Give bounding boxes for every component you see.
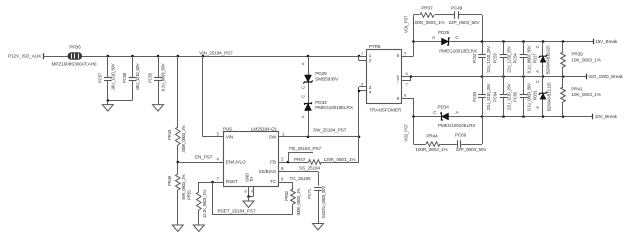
wire bottom snubber [414,117,483,145]
wire TC to PR52 [279,182,294,184]
wire secondary pin 8 [402,98,414,117]
svg-text:120K_0603_1%: 120K_0603_1% [324,157,356,162]
pin1 number outside [361,51,364,56]
transformer PTR8 box [367,44,402,112]
svg-text:PMEG10010ELRX: PMEG10010ELRX [439,49,478,54]
wire SW row [279,136,361,139]
svg-text:22P_0603_50V: 22P_0603_50V [449,20,481,25]
svg-text:PR47: PR47 [294,157,306,162]
svg-text:C: C [300,95,305,98]
svg-text:PC54: PC54 [513,53,518,64]
svg-text:RSET: RSET [226,179,238,184]
svg-text:SW_25184_PS7: SW_25184_PS7 [313,128,347,133]
port 10V_Break [593,114,618,120]
svg-text:330K_0603_1%: 330K_0603_1% [181,125,186,153]
svg-text:10U_1210_50V: 10U_1210_50V [135,63,140,90]
pin 1 number [282,131,285,136]
svg-text:10K_0603_1%: 10K_0603_1% [571,57,600,62]
pin 4 number [216,157,219,162]
svg-text:FB: FB [270,160,276,165]
svg-text:EN_PS7: EN_PS7 [195,155,213,160]
svg-text:ISO_GND_Break: ISO_GND_Break [588,74,623,79]
svg-text:VO1_PS7: VO1_PS7 [403,15,408,33]
capacitor PC58 [122,56,140,101]
ground under PC59 [153,101,164,112]
svg-text:0.1U_0603_50V: 0.1U_0603_50V [161,63,166,91]
zener PD31 [532,77,551,117]
svg-text:100R_0603_1%: 100R_0603_1% [412,20,444,25]
wire SS/BIAS [279,172,319,186]
svg-text:PFB6: PFB6 [69,45,81,50]
svg-text:PD31: PD31 [532,90,537,101]
pin 5 number [281,166,284,171]
svg-text:PC65: PC65 [513,91,518,102]
net label FB_25184_PS7 [289,146,321,151]
wire FB row [279,162,360,164]
svg-text:PTR8: PTR8 [369,44,381,49]
capacitor PC69 [455,133,488,152]
wire GND TH stubs [247,187,253,198]
node junction dots on VIN rail [107,55,361,58]
ground under IC GND [243,197,254,208]
svg-text:PD29: PD29 [315,71,327,76]
wire clamp vertical [308,56,310,137]
svg-text:VO2_PS7: VO2_PS7 [403,124,408,142]
net label TC_25185 [290,176,311,181]
svg-text:PMEG10010ELRX: PMEG10010ELRX [438,123,477,128]
resistor PR52 [284,182,301,216]
wire PR49 to ground [177,190,179,225]
wire top snubber [414,15,483,42]
svg-text:10V_Break: 10V_Break [595,114,618,119]
svg-text:FB_25184_PS7: FB_25184_PS7 [289,146,321,151]
pin 6 number [281,176,284,181]
capacitor PC57 [97,56,115,101]
svg-text:PR43: PR43 [167,129,172,140]
diode PD34 [433,104,476,128]
capacitor PC64 [493,77,512,117]
pin 8 9 numbers GND TH [244,189,253,194]
svg-text:SMB5930V: SMB5930V [315,77,339,82]
net label VO2_PS7 [403,124,408,142]
svg-text:VIN: VIN [226,135,233,140]
wire secondary pins 6 7 bracket [402,75,413,80]
svg-text:22U_1210_25V: 22U_1210_25V [507,83,512,110]
svg-text:SS/BIAS: SS/BIAS [258,169,275,174]
net label RSET_25184_PS7 [218,208,256,213]
capacitor PC71 [307,186,326,224]
IC PU5 LM25184-Q1 [223,126,279,186]
svg-text:PC59: PC59 [148,72,153,83]
svg-text:PD27: PD27 [532,53,537,64]
ground under PR51 [193,225,204,232]
svg-text:TC: TC [270,179,277,184]
svg-text:C: C [535,45,540,48]
svg-text:PC52: PC52 [472,53,477,64]
net label SW_25184_PS7 [313,128,347,133]
zener PD27 [532,42,550,77]
wire cap bottoms tie [107,99,133,102]
wire mid rail ISO_GND [411,75,587,78]
svg-text:10K_0603_1%: 10K_0603_1% [571,92,600,97]
wire primary pins 3 4 bracket [358,87,367,93]
node FB label stub [287,152,313,163]
svg-text:PR52: PR52 [284,190,289,201]
capacitor PC54 [513,42,532,77]
resistor PR47 [294,157,355,165]
wire RSET row [199,181,224,184]
diode PD33 [300,95,354,118]
resistor PR41 [561,77,601,117]
diode PD29 TVS [300,62,339,89]
wire VO1 vertical [412,15,415,56]
svg-text:C: C [535,80,540,83]
svg-text:SW: SW [269,135,277,140]
net label VIN_25184_PS7 [199,50,233,55]
wire EN_PS7 to pin4 [178,162,224,164]
svg-text:PR39: PR39 [571,51,583,56]
svg-text:PC69: PC69 [455,133,467,138]
svg-text:100R_0603_1%: 100R_0603_1% [415,147,447,152]
svg-text:TC_25185: TC_25185 [290,176,311,181]
wire primary pins 1 2 bracket [359,56,367,61]
net label SS_25184 [299,166,320,171]
resistor PR39 [561,42,601,77]
svg-text:TRANSFOMER: TRANSFOMER [370,107,402,112]
capacitor PC59 [148,56,166,101]
node EN_PS7 [177,155,213,164]
svg-text:VIN_25184_PS7: VIN_25184_PS7 [199,50,233,55]
svg-text:0.1U_0603_50V: 0.1U_0603_50V [527,83,532,111]
net label VO1_PS7 [403,15,408,33]
capacitor PC53 [493,42,512,77]
resistor PR37 [412,5,444,25]
pin3 number outside [361,82,364,87]
svg-text:PC64: PC64 [493,91,498,102]
svg-text:LM25184-Q1: LM25184-Q1 [251,126,278,131]
capacitor PC63 [472,77,491,117]
svg-text:PR37: PR37 [421,5,433,10]
svg-text:PU5: PU5 [223,126,232,131]
svg-text:15V_Break: 15V_Break [595,39,618,44]
svg-text:0.022U_0603_50V: 0.022U_0603_50V [321,186,326,218]
svg-text:EN/UVLO: EN/UVLO [226,160,246,165]
svg-text:TH: TH [249,177,254,182]
resistor PR44 [415,134,447,152]
diode PD25 [432,30,478,54]
svg-text:PD34: PD34 [438,104,450,109]
svg-text:22U_1210_25V: 22U_1210_25V [486,46,491,73]
wire PR43 to EN node [177,145,179,174]
svg-text:PR51: PR51 [187,189,192,200]
svg-text:PC53: PC53 [493,53,498,64]
svg-text:22P_0603_50V: 22P_0603_50V [456,147,488,152]
resistor PR49 [167,174,186,200]
svg-text:10U_1210_50V: 10U_1210_50V [110,63,115,90]
port ISO_GND_Break [587,74,624,80]
svg-text:PR44: PR44 [426,134,438,139]
capacitor PC49 [449,5,481,25]
wire PR43 column drop [177,56,179,127]
svg-text:PC57: PC57 [97,72,102,83]
resistor PR51 [187,182,207,225]
svg-text:0.1U_0603_50V: 0.1U_0603_50V [527,45,532,73]
wire RSET net down and right [213,182,294,215]
svg-text:P12V_ISO_AUX: P12V_ISO_AUX [8,54,42,59]
pin5 number outside [404,51,407,56]
svg-text:PC63: PC63 [472,91,477,102]
svg-text:BZX84J-B18,115: BZX84J-B18,115 [546,45,551,74]
pin 3 number [216,131,219,136]
pin6 number outside [406,71,409,86]
capacitor PC65 [513,77,532,117]
port P12V_ISO_AUX [8,53,43,59]
svg-text:SS_25184: SS_25184 [299,166,320,171]
svg-text:PC71: PC71 [307,188,312,199]
svg-text:PC58: PC58 [122,72,127,83]
svg-text:PR49: PR49 [167,175,172,186]
svg-text:C: C [300,86,305,89]
pin 2 number [281,157,284,162]
wire top rail 15V [414,40,594,43]
port 15V_Break [594,39,618,45]
svg-text:22U_1210_25V: 22U_1210_25V [507,46,512,73]
svg-text:300K_0603_1%: 300K_0603_1% [296,188,301,216]
svg-text:PC49: PC49 [451,5,463,10]
svg-text:A: A [300,62,305,65]
ground under PC57 [102,101,113,112]
wire secondary pin 5 [402,56,414,58]
svg-text:PMEG10010ELRX: PMEG10010ELRX [315,105,354,110]
wire FB up to SW [358,91,360,162]
svg-text:BZX84J-B12,115: BZX84J-B12,115 [547,82,552,111]
capacitor PC52 [472,42,491,77]
svg-text:A: A [300,115,305,118]
svg-text:12.1K_0603_1%: 12.1K_0603_1% [202,189,207,218]
wire input rail VIN [43,56,359,58]
svg-text:RSET_25184_PS7: RSET_25184_PS7 [218,208,256,213]
ground under PC71 [313,224,324,231]
svg-text:PD25: PD25 [438,30,450,35]
svg-text:22U_1210_25V: 22U_1210_25V [486,83,491,110]
pin8 number outside [404,93,407,98]
ferrite bead PFB6 [52,45,97,67]
wire VIN drop to pin3 [203,56,224,137]
wire bottom rail 10V [412,115,593,118]
svg-text:59K_0603_1%: 59K_0603_1% [181,174,186,200]
resistor PR43 [167,125,186,153]
svg-text:PR41: PR41 [571,86,583,91]
pin 7 number [216,176,219,181]
ground under PR49 [172,225,183,232]
svg-text:MPZ1608S300AT.AH0: MPZ1608S300AT.AH0 [52,61,97,66]
